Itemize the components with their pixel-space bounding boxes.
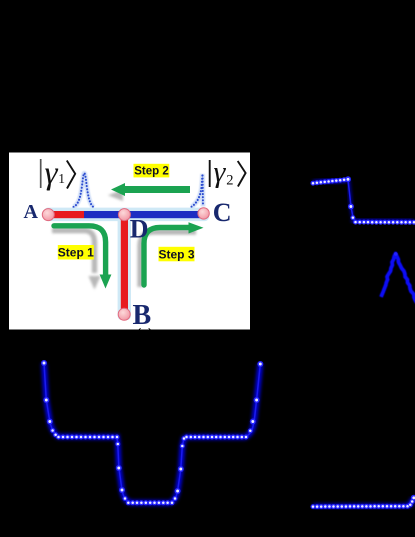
svg-text:C: C [213,198,232,227]
node D [118,209,130,221]
svg-text:Step 1: Step 1 [58,246,94,260]
svg-text:Step 2: Step 2 [134,166,169,178]
svg-text:D: D [130,215,149,244]
plot: top-right step-down dotted curve [311,176,415,225]
Step 1 green arrow shadow [52,231,95,274]
svg-text:2: 2 [226,173,233,189]
wavepacket gamma1 (blue dotted gaussian) [74,173,94,207]
Step 2 green arrow (pointing left) shadow [122,192,182,198]
svg-text:γ: γ [214,156,227,189]
waveguide DB red segment (vertical) [121,214,128,315]
plot: bottom-left double-well dotted curve [41,360,263,505]
Step 3 green arrow (curving up-right) [144,222,204,285]
Step 1 green arrow (curving down) [54,226,111,289]
Step 2 green arrow (pointing left) [111,183,190,196]
Step 3 green arrow shadow [140,232,196,287]
svg-text:(a): (a) [137,327,154,342]
wavepacket gamma2 (blue dotted narrow peak) [192,174,204,207]
panel (a) white background [9,153,250,330]
svg-text:1: 1 [58,171,65,186]
svg-text:Step 3: Step 3 [158,247,194,261]
waveguide DC blue segment [84,211,205,218]
node C [198,208,209,219]
waveguide AD red segment [48,211,84,218]
node A [42,209,54,221]
plot: right-side solid blue peak (partly cut at edge) [381,252,415,303]
ket |gamma_1> label [41,156,75,192]
svg-text:A: A [24,201,39,223]
Step 1 yellow label [58,245,94,260]
Step 2 yellow label [134,164,170,178]
ket |gamma_2> label [210,156,246,189]
Step 3 yellow label [158,247,194,261]
plot: bottom-right dotted line with uptick [311,495,415,509]
node B [118,308,130,320]
waveguide halo (light blue) [44,208,209,320]
svg-text:γ: γ [45,156,59,192]
